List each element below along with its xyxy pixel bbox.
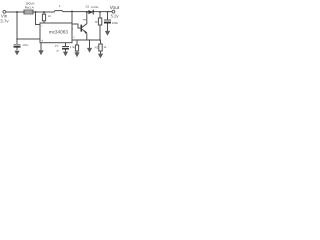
svg-text:mc34063: mc34063 [49,29,69,34]
svg-text:8: 8 [72,27,74,30]
svg-text:Vout: Vout [110,5,120,11]
svg-text:1n: 1n [56,49,59,52]
svg-text:1R: 1R [48,15,51,18]
svg-text:4: 4 [41,39,43,43]
svg-text:100u: 100u [112,21,119,25]
svg-text:2: 2 [73,36,75,39]
svg-text:3.7v: 3.7v [0,19,9,24]
svg-text:R2: R2 [95,46,99,50]
svg-text:1.5k: 1.5k [70,46,76,49]
svg-text:100u: 100u [22,44,28,47]
svg-text:Rw1.4: Rw1.4 [25,5,34,9]
svg-text:7: 7 [41,25,43,28]
svg-text:1k: 1k [104,46,107,49]
svg-text:CT: CT [55,44,59,48]
svg-text:R1: R1 [95,20,99,24]
svg-text:1N581: 1N581 [91,6,99,9]
svg-text:D1: D1 [86,4,90,8]
svg-text:5.2v: 5.2v [111,14,120,19]
svg-text:1: 1 [59,4,61,8]
